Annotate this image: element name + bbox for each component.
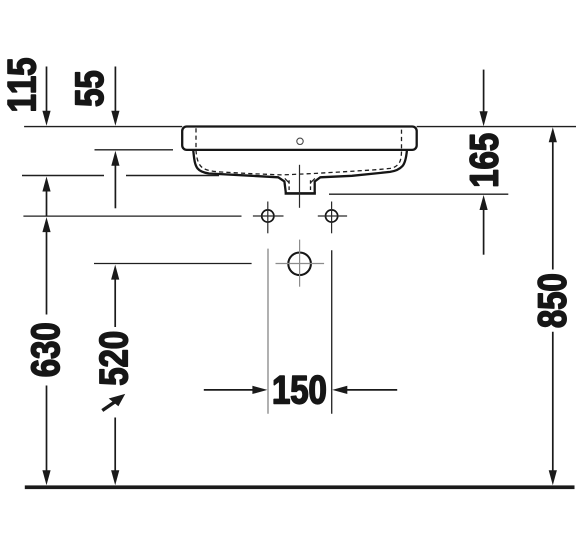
floor line [25,485,575,489]
label 55 [76,71,104,106]
dimension 55 upper arrow [111,67,119,126]
extension line left fixing hole [267,249,269,414]
drain centerline [299,165,301,208]
waste pipe h-centerline [276,263,325,265]
dimension 630 bottom arrow [42,386,50,486]
bowl outline left [193,151,285,193]
bowl outline right [315,151,407,193]
drain hidden edge left dashed [288,180,290,192]
drain outlet bottom [285,192,316,195]
label 520 [99,332,127,384]
fixing hole left v-centerline [267,202,269,234]
reference line 165 bottom level [329,193,508,195]
hidden bowl dashed line [196,128,402,175]
dimension 115 upper arrow [42,67,50,126]
dimension 850 top arrow [549,127,557,269]
fixing hole left [262,210,274,222]
reference line rim-top right segment [417,126,576,128]
drain chamfer dash left [285,178,289,182]
basin rim [182,127,417,150]
label 115 [8,59,36,111]
dimension 630 top arrow [42,217,50,314]
waste pipe v-centerline [299,240,301,287]
fixing hole left h-centerline [253,215,284,217]
label 850 [538,275,566,327]
overflow hole [297,138,303,144]
reference line 520 level [94,263,252,265]
dimension 850 bottom arrow [549,332,557,486]
label 165 [470,134,498,186]
reference line 630 level [23,215,241,217]
label 630 [31,324,59,376]
reference line 115 level segment b [126,175,219,177]
extension line right fixing hole [331,250,333,413]
drain chamfer dash right [311,178,315,182]
dimension 150 right arrow [332,386,397,394]
dimension 520 top arrow [111,265,119,327]
label 150 [274,376,325,404]
reference line rim-bottom (55) [95,149,174,151]
dimension 150 left arrow [204,386,268,394]
fixing hole right v-centerline [331,202,333,234]
drain hidden edge right dashed [310,180,312,192]
dimension 115 lower arrow [42,177,50,217]
reference line 115 level segment a [22,175,104,177]
slope arrow [102,394,125,411]
dimension 520 bottom arrow [111,418,119,486]
dimension 165 bottom arrow [480,195,488,255]
fixing hole right [326,210,338,222]
waste pipe hole [288,252,311,275]
dimension 55 lower arrow [111,151,119,209]
dimension 165 top arrow [480,70,488,127]
reference line rim-top left segment [24,126,182,128]
fixing hole right h-centerline [318,215,347,217]
